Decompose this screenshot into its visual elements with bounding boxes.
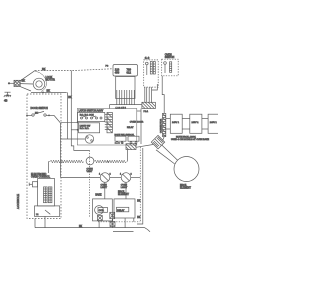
wire stub y=129.8: [71, 129, 77, 131]
svg-text:ELEMENT: ELEMENT: [180, 187, 191, 189]
dashed bottom edge: [98, 221, 140, 223]
svg-text:BK: BK: [22, 79, 26, 83]
component side box: [32, 182, 37, 187]
bar mid lines: [44, 187, 46, 203]
svg-text:DOOR SWITCH: DOOR SWITCH: [31, 107, 49, 110]
dashed edge left of K2: [89, 150, 91, 218]
connector bar CN2: [48, 187, 52, 203]
diamond connector on broil line: [151, 135, 164, 148]
pin bus line: [110, 104, 142, 106]
row box B: [79, 123, 100, 133]
svg-text:N.O. N.C.: N.O. N.C.: [80, 128, 90, 130]
wire vertical A drop: [67, 92, 69, 139]
wire wavy up to relay block: [127, 150, 129, 162]
switch circle S2: [85, 135, 93, 143]
relay cluster box 2: [128, 136, 139, 141]
wire lower horizontal run: [31, 91, 67, 93]
heater connector strip CN4: [163, 113, 166, 136]
wire corner into relay block: [109, 105, 111, 109]
svg-text:SWITCH: SWITCH: [165, 56, 175, 59]
oven light lamp L2: [121, 173, 131, 183]
lock assembly outline: [35, 71, 47, 92]
svg-text:4B: 4B: [4, 99, 8, 103]
svg-text:LIGHT: LIGHT: [101, 187, 108, 189]
svg-text:CONNECTOR: CONNECTOR: [161, 119, 163, 133]
wire between lamps: [110, 177, 122, 179]
heating element HE2: [190, 114, 202, 133]
diagonal mark inside: [45, 210, 50, 214]
lock motor M1: [33, 78, 45, 90]
svg-text:ELEMENT: ELEMENT: [118, 194, 129, 196]
wires down from SB1: [145, 87, 152, 102]
oven light lamp L1: [100, 173, 110, 183]
contacts in box A: [81, 116, 103, 119]
ground symbol: [4, 92, 11, 97]
svg-text:BK: BK: [68, 95, 72, 99]
heating element HE3: [208, 114, 220, 133]
wire wavy into EOC: [48, 162, 50, 174]
connector block X-hatch bottom of relay: [126, 144, 136, 150]
main bottom bus: [35, 227, 145, 229]
svg-text:BK: BK: [137, 217, 141, 219]
svg-text:BK: BK: [137, 201, 141, 203]
node dot: [48, 115, 50, 117]
wire K3 right down: [133, 218, 135, 222]
wire vertical B from dashed run: [71, 71, 89, 151]
vent switch circle: [86, 157, 94, 165]
terminal block TB1 label box: [113, 65, 138, 77]
wire lamp feed right: [131, 177, 141, 179]
svg-text:NC: NC: [35, 113, 39, 115]
switch bank SB1 dashed box: [144, 60, 159, 87]
wire diagonal down: [54, 115, 61, 177]
wire strings to broil element: [162, 145, 178, 161]
door switch S1: [32, 111, 46, 116]
connector row CN3 hatched: [142, 102, 156, 108]
node dot on wavy: [107, 161, 109, 163]
wire fan upper: [20, 71, 35, 81]
SB1 innards: [146, 62, 156, 76]
surface element row: wires to HE1: [166, 118, 171, 120]
node dot: [77, 129, 79, 131]
svg-text:OVEN DOOR: OVEN DOOR: [130, 122, 144, 124]
wire K3 down: [124, 218, 126, 228]
contact dots row: [115, 142, 123, 143]
K2 coil circle: [95, 206, 104, 215]
terminal block TB1 body: [116, 77, 135, 99]
wire lamp2 down: [125, 182, 127, 199]
bus end hook: [145, 228, 151, 232]
bus stub from console: [34, 219, 36, 228]
svg-text:P2-1: P2-1: [144, 111, 149, 113]
wire hatch down to bus: [112, 219, 114, 228]
X-hatch connector b: [97, 216, 102, 221]
wire from EOC down to bus: [44, 216, 46, 227]
svg-text:BK: BK: [79, 226, 83, 228]
K2 coil tag: [98, 208, 108, 213]
switch bank SB2 dashed box: [162, 59, 179, 76]
svg-text:LIGHT: LIGHT: [121, 187, 128, 189]
svg-text:MOTOR: MOTOR: [46, 79, 55, 82]
broil element circle: [174, 157, 199, 182]
wires HE2-HE3: [202, 118, 208, 120]
wire fan lower: [20, 87, 31, 91]
wire CN3 down: [140, 109, 142, 145]
svg-text:LIGHT SW: LIGHT SW: [80, 125, 91, 127]
svg-text:USED 4 ON MODELS AT OVEN BAKE: USED 4 ON MODELS AT OVEN BAKE: [171, 138, 210, 141]
dashed right edge: [139, 147, 141, 222]
cluster contacts: [116, 142, 137, 144]
X-hatch connector c: [110, 222, 115, 227]
svg-text:RELAY: RELAY: [117, 209, 125, 212]
relay block K1 outline: [77, 109, 137, 146]
link strip to diamond: [163, 137, 164, 140]
wire relay block to diamond: [136, 145, 153, 148]
wire from SB2 left: [152, 84, 158, 90]
X-hatch connector a: [110, 212, 115, 218]
wire lamp1 down: [104, 182, 106, 199]
relay cluster box 1: [115, 136, 126, 141]
K3 inner rect: [117, 207, 129, 212]
svg-text:240V 1: 240V 1: [192, 122, 200, 124]
wire with T-bar: [29, 183, 32, 186]
ground wire: [5, 91, 11, 93]
svg-text:BK: BK: [42, 67, 46, 71]
node junction dot: [42, 92, 44, 94]
wire K2 down to bus: [98, 221, 100, 228]
svg-text:COIL: COIL: [99, 210, 105, 212]
broil relay box K3: [114, 199, 135, 218]
svg-text:BK: BK: [47, 89, 51, 93]
wire broil feed vertical: [137, 148, 143, 224]
svg-text:A CONSOLE: A CONSOLE: [16, 194, 20, 209]
wires HE1-HE2: [182, 118, 190, 120]
node dot: [77, 121, 79, 123]
svg-text:456: 456: [115, 70, 120, 74]
oven vent element wavy: [49, 160, 84, 163]
wire block to vert: [137, 110, 141, 112]
bake relay box K2: [93, 199, 113, 221]
wire console to S2: [61, 138, 85, 140]
svg-text:(1-4): (1-4): [145, 58, 150, 60]
lower stub line: [113, 231, 134, 233]
svg-text:N.O. N.C. COM: N.O. N.C. COM: [80, 114, 94, 116]
wire dashed top run to terminal block: [35, 70, 72, 72]
contact row box A: [78, 113, 105, 122]
svg-text:RELAY: RELAY: [127, 126, 134, 129]
terminal block pin comb: [117, 90, 135, 105]
svg-text:BAKE: BAKE: [95, 193, 102, 196]
wire: [9, 82, 14, 84]
wire from SB2 down to strip: [162, 76, 164, 114]
transformer box T1: [35, 206, 60, 217]
SB2 innards: [164, 62, 172, 73]
wire door switch right: [46, 114, 54, 116]
svg-text:240V 1: 240V 1: [172, 122, 180, 124]
svg-text:012: 012: [127, 70, 132, 74]
heating element HE1: [170, 114, 182, 133]
wire lamp feed run: [61, 177, 101, 179]
wire fan mid: [20, 83, 33, 85]
EOC board U1: [38, 179, 55, 206]
connector block J1 (hatched): [14, 80, 20, 86]
connector bar CN1: [44, 187, 48, 203]
wire door switch left: [27, 114, 32, 116]
node power terminal dot: [8, 82, 10, 84]
node dot on console edge: [26, 115, 28, 117]
wire horizontal y=122.3: [61, 121, 77, 123]
pin strip comb right: [105, 113, 113, 133]
svg-text:240V 1: 240V 1: [210, 122, 218, 124]
console dashed enclosure: [27, 94, 61, 219]
